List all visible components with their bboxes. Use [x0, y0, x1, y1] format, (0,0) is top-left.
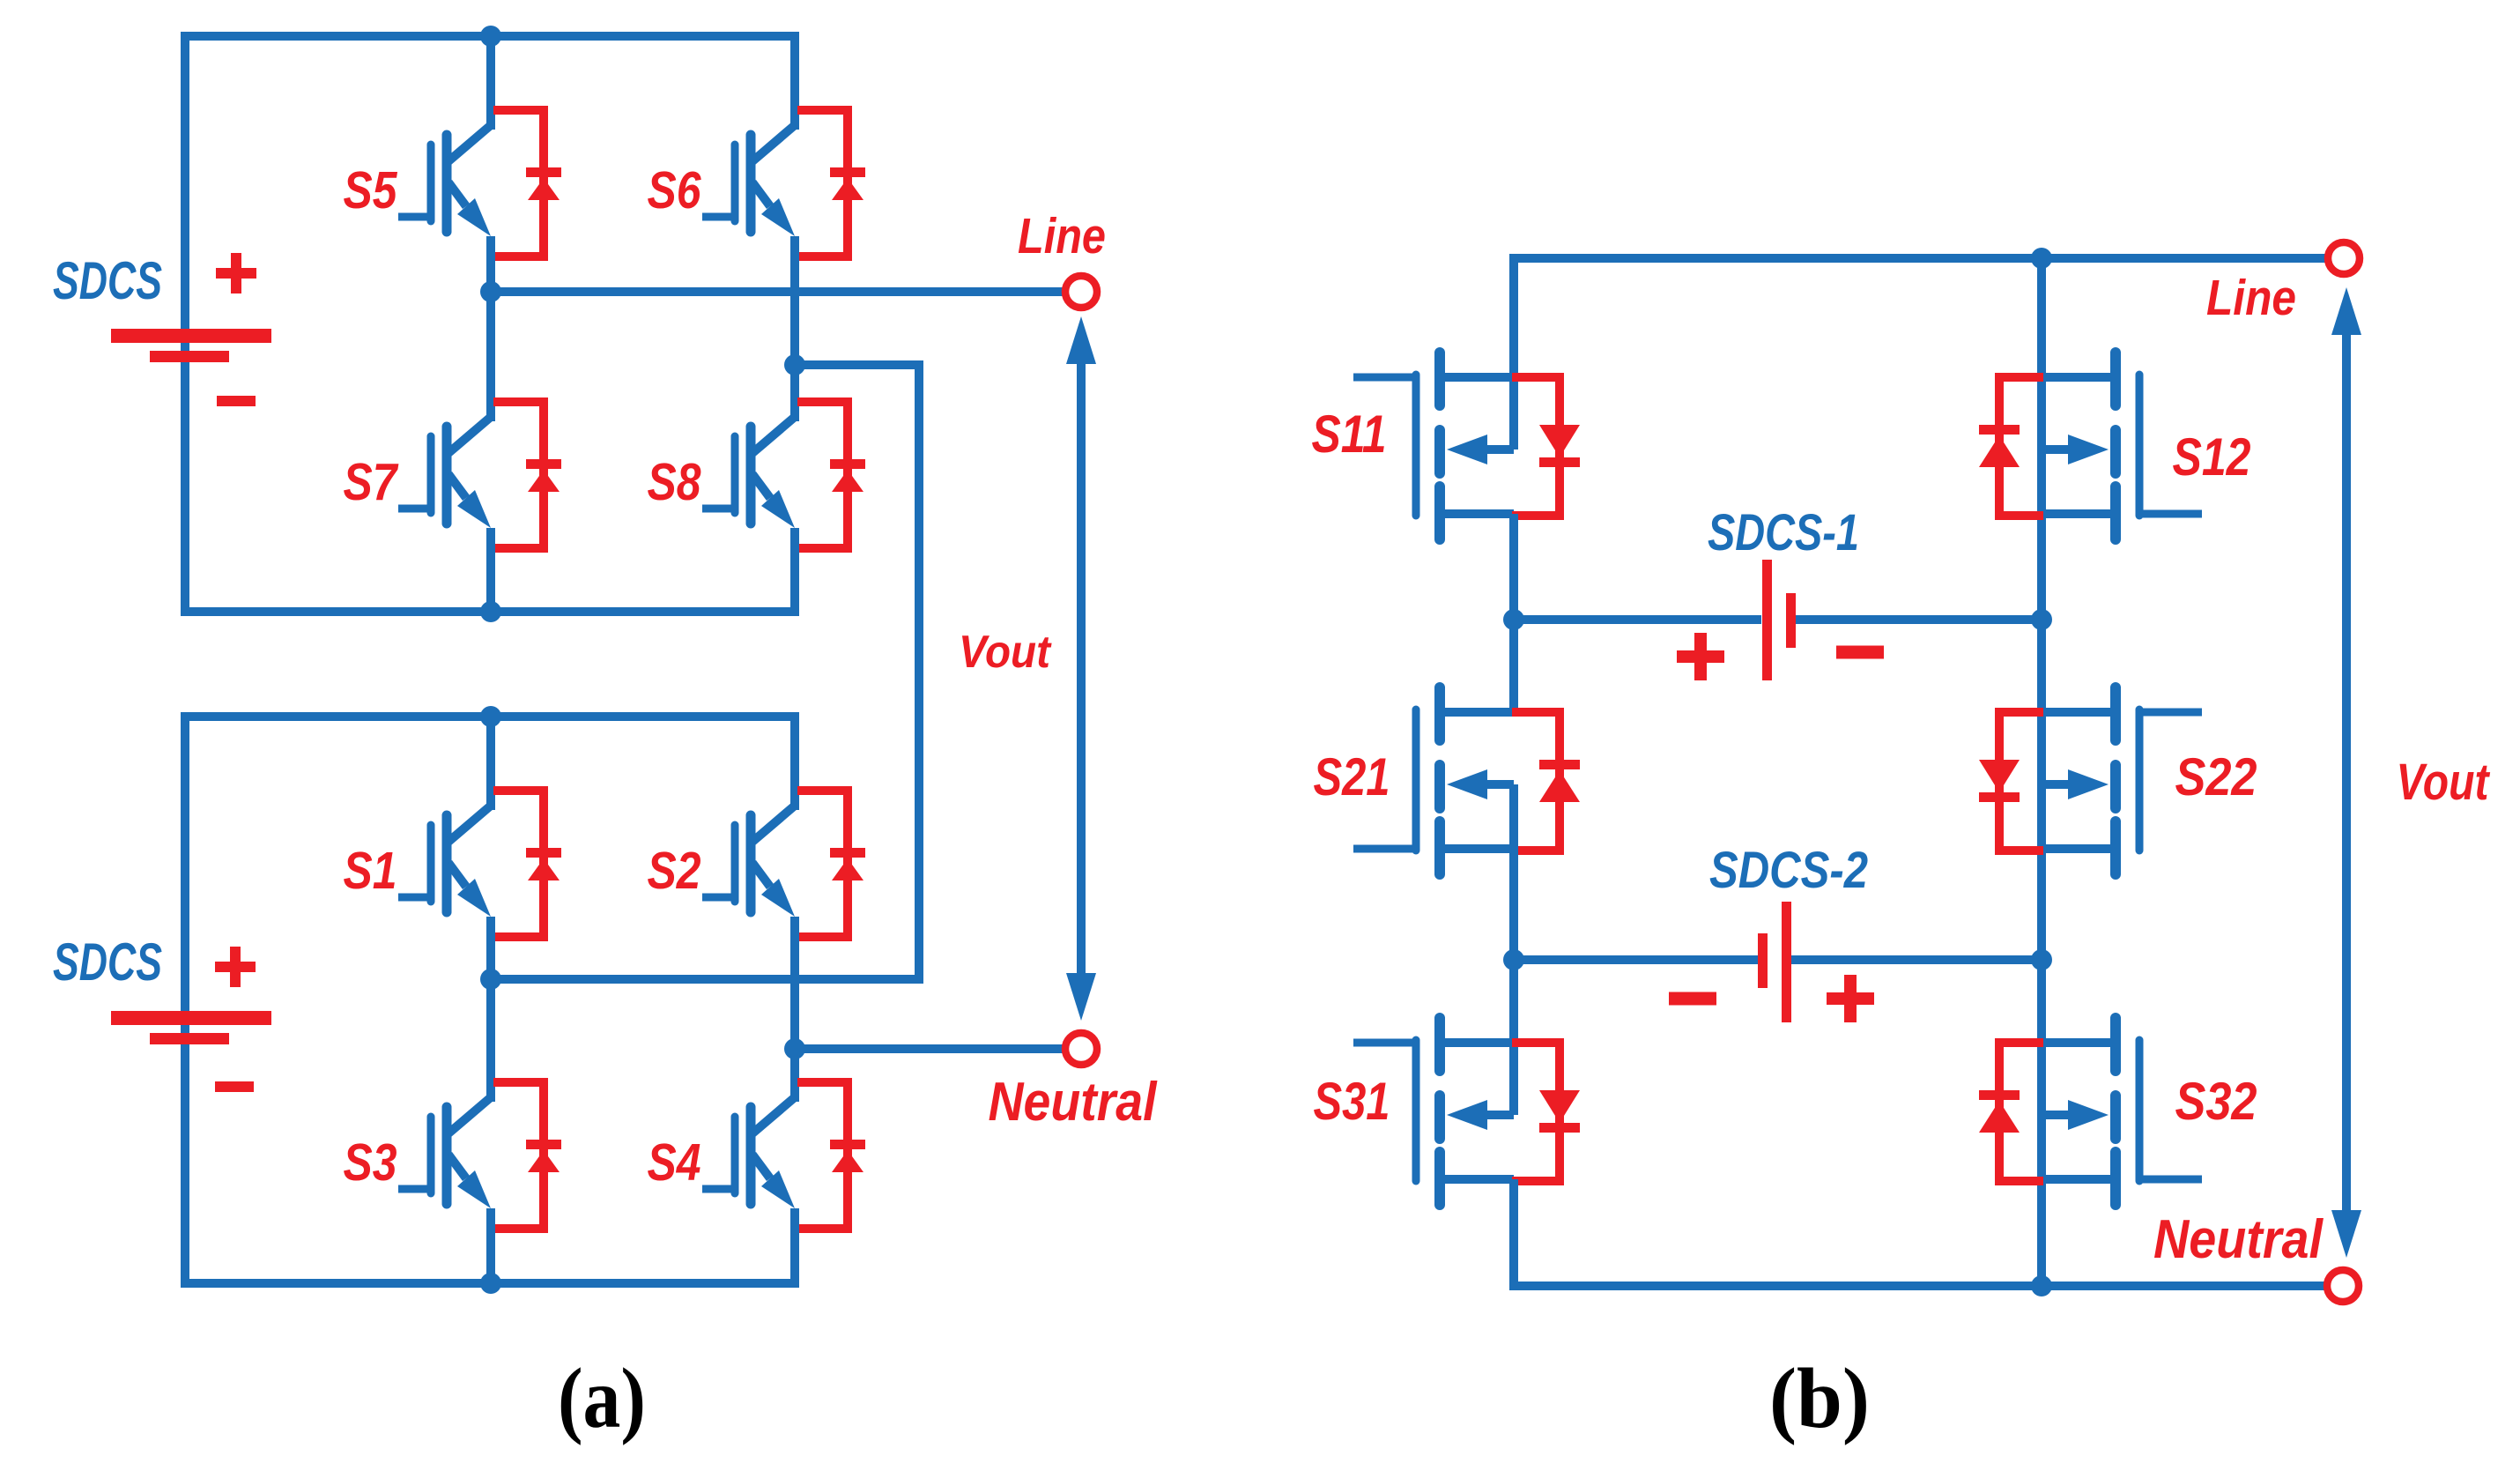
- diode D2 (antiparallel of S2): [797, 791, 865, 937]
- svg-text:S7: S7: [344, 453, 400, 511]
- node top bus junction (b): [2031, 248, 2052, 269]
- transistor S21 (MOSFET): [1353, 687, 1514, 874]
- minus sign (upper SDCS): [217, 396, 256, 406]
- label Neutral (a): [989, 1072, 1159, 1133]
- diode D7 (antiparallel of S7): [493, 402, 561, 548]
- transistor S1 (IGBT): [398, 806, 491, 917]
- label S21: [1314, 747, 1390, 806]
- label Vout (b): [2397, 754, 2491, 811]
- svg-text:S31: S31: [1314, 1072, 1390, 1131]
- wire top bus (upper bridge): [181, 32, 799, 41]
- svg-text:S12: S12: [2173, 427, 2251, 487]
- svg-text:(b): (b): [1769, 1351, 1870, 1446]
- svg-text:SDCS: SDCS: [53, 251, 162, 310]
- wire S31 drain branch: [1509, 960, 1518, 1115]
- battery SDCS-2 plates: [1758, 902, 1791, 1022]
- diode D32 (body diode of S32): [1979, 1043, 2043, 1181]
- transistor S31 (MOSFET): [1353, 1018, 1514, 1205]
- terminal Neutral (b): [2327, 1270, 2359, 1302]
- svg-text:SDCS: SDCS: [53, 932, 162, 992]
- transistor S6 (IGBT): [702, 125, 795, 236]
- arrow Vout (a): [1066, 316, 1096, 1021]
- node top-left junction (upper): [480, 26, 501, 47]
- wire S31 source to bottom bus: [1509, 1179, 1518, 1286]
- wire S3 emitter to bottom bus: [486, 1208, 495, 1283]
- battery SDCS (lower) plates: [111, 1011, 271, 1044]
- svg-text:Vout: Vout: [2397, 754, 2491, 811]
- svg-text:S11: S11: [1312, 405, 1387, 464]
- label Neutral (b): [2153, 1209, 2324, 1270]
- wire S8 collector: [790, 365, 799, 421]
- label SDCS (lower): [53, 932, 162, 992]
- label Line (a): [1018, 208, 1106, 264]
- wire SDCS-2 tall plate to right column: [1791, 955, 2042, 964]
- svg-text:S2: S2: [648, 842, 701, 900]
- wire S4 collector: [790, 1049, 799, 1102]
- wire mid node to SDCS-1 positive plate: [1514, 615, 1761, 624]
- wire S5 collector: [486, 36, 495, 130]
- diode D4 (antiparallel of S4): [797, 1082, 865, 1229]
- diode D11 (body diode of S11): [1512, 377, 1580, 516]
- node right mid node 2 (b): [2031, 949, 2052, 970]
- terminal Neutral (a): [1065, 1033, 1097, 1065]
- terminal Line (a): [1065, 276, 1097, 308]
- label S8: [648, 453, 701, 511]
- transistor S8 (IGBT): [702, 417, 795, 528]
- transistor S22 (MOSFET): [2042, 687, 2202, 874]
- node bottom junction (lower): [480, 1273, 501, 1294]
- svg-text:S8: S8: [648, 453, 701, 511]
- wire S4 emitter to bottom bus: [790, 1208, 799, 1288]
- svg-text:S1: S1: [344, 842, 397, 900]
- node bottom junction (upper): [480, 601, 501, 622]
- node bottom bus junction (b): [2031, 1275, 2052, 1296]
- wire S7 emitter to bottom bus: [486, 528, 495, 612]
- wire Line output: [491, 287, 1065, 296]
- wire bottom bus (b): [1509, 1282, 2327, 1290]
- terminal Line (b): [2328, 242, 2360, 274]
- wire cascade (upper-right midpoint to lower-left midpoint): [491, 365, 919, 979]
- transistor S32 (MOSFET): [2042, 1018, 2202, 1205]
- label Line (b): [2206, 270, 2296, 326]
- wire S8 emitter to bottom bus: [790, 528, 799, 616]
- svg-text:S6: S6: [648, 161, 702, 219]
- node upper-right midpoint: [784, 354, 805, 375]
- transistor S7 (IGBT): [398, 417, 491, 528]
- svg-text:Vout: Vout: [959, 627, 1052, 678]
- wire S3 collector: [486, 979, 495, 1102]
- wire S2 collector: [790, 712, 799, 810]
- node left mid node 2 (b): [1503, 949, 1524, 970]
- minus sign (SDCS-1): [1836, 646, 1884, 659]
- wire bottom bus (upper bridge): [181, 607, 799, 616]
- label S22: [2175, 747, 2257, 806]
- wire S1 collector: [486, 717, 495, 810]
- label S4: [648, 1133, 701, 1192]
- plus sign (upper SDCS): [216, 253, 256, 293]
- wire S7 collector: [486, 292, 495, 421]
- wire S21 source to mid node 2: [1509, 784, 1518, 960]
- wire SDCS-1 negative plate to right column: [1796, 615, 2042, 624]
- wire S6 emitter (crosses Line wire): [790, 236, 799, 365]
- label S12: [2173, 427, 2251, 487]
- transistor S5 (IGBT): [398, 125, 491, 236]
- diode D8 (antiparallel of S8): [797, 402, 865, 548]
- node upper-left midpoint: [480, 281, 501, 302]
- label S5: [344, 161, 398, 219]
- svg-text:Neutral: Neutral: [989, 1072, 1159, 1133]
- diode D3 (antiparallel of S3): [493, 1082, 561, 1229]
- label S2: [648, 842, 701, 900]
- svg-text:SDCS-2: SDCS-2: [1709, 842, 1868, 899]
- wire S2 emitter (crosses cascade wire): [790, 917, 799, 1049]
- plus sign (lower SDCS): [215, 947, 256, 987]
- wire battery branch (lower SDCS): [181, 712, 189, 1288]
- diode D21 (body diode of S21): [1512, 712, 1580, 851]
- svg-text:S5: S5: [344, 161, 398, 219]
- diode D1 (antiparallel of S1): [493, 791, 561, 937]
- wire battery branch (upper SDCS): [181, 32, 189, 616]
- plus sign (SDCS-1): [1677, 633, 1724, 680]
- diode D22 (body diode of S22): [1979, 712, 2043, 851]
- wire Neutral output: [795, 1044, 1065, 1053]
- wire top bus (b): [1509, 254, 2328, 263]
- label S6: [648, 161, 702, 219]
- node top-left junction (lower): [480, 706, 501, 727]
- battery SDCS-1 plates: [1762, 560, 1796, 680]
- svg-text:Line: Line: [1018, 208, 1106, 264]
- node right mid node 1 (b): [2031, 609, 2052, 630]
- transistor S2 (IGBT): [702, 806, 795, 917]
- label S32: [2175, 1072, 2257, 1131]
- diode D5 (antiparallel of S5): [493, 110, 561, 256]
- wire S21 drain branch: [1509, 620, 1518, 712]
- label S7: [344, 453, 400, 511]
- transistor S11 (MOSFET): [1353, 353, 1514, 539]
- label SDCS-2: [1709, 842, 1868, 899]
- plus sign (SDCS-2): [1827, 975, 1874, 1022]
- wire S1 emitter to midpoint: [486, 917, 495, 979]
- transistor S4 (IGBT): [702, 1097, 795, 1208]
- svg-text:SDCS-1: SDCS-1: [1708, 504, 1859, 561]
- battery SDCS (upper) plates: [111, 329, 271, 362]
- label S11: [1312, 405, 1387, 464]
- diode D12 (body diode of S12): [1979, 377, 2043, 516]
- node left mid node 1 (b): [1503, 609, 1524, 630]
- label S1: [344, 842, 397, 900]
- transistor S12 (MOSFET): [2042, 353, 2202, 539]
- wire S6 collector: [790, 32, 799, 130]
- label S31: [1314, 1072, 1390, 1131]
- label Vout (a): [959, 627, 1052, 678]
- diode D6 (antiparallel of S6): [797, 110, 865, 256]
- svg-text:(a): (a): [558, 1351, 646, 1446]
- transistor S3 (IGBT): [398, 1097, 491, 1208]
- caption (a): [558, 1351, 646, 1446]
- svg-text:S21: S21: [1314, 747, 1390, 806]
- node lower-left midpoint: [480, 969, 501, 990]
- node lower-right midpoint: [784, 1038, 805, 1059]
- svg-text:S4: S4: [648, 1133, 701, 1192]
- svg-text:S32: S32: [2175, 1072, 2257, 1131]
- wire S11 drain branch: [1509, 258, 1518, 449]
- svg-text:S3: S3: [344, 1133, 397, 1192]
- minus sign (SDCS-2): [1669, 992, 1716, 1006]
- label S3: [344, 1133, 397, 1192]
- caption (b): [1769, 1351, 1870, 1446]
- wire right column (b): [2037, 258, 2046, 1286]
- label SDCS (upper): [53, 251, 162, 310]
- wire bottom bus (lower bridge): [181, 1279, 799, 1288]
- wire top bus (lower bridge): [181, 712, 799, 721]
- svg-text:Neutral: Neutral: [2153, 1209, 2324, 1270]
- svg-text:Line: Line: [2206, 270, 2296, 326]
- wire S11 source to mid node: [1509, 514, 1518, 620]
- label SDCS-1: [1708, 504, 1859, 561]
- arrow Vout (b): [2331, 287, 2361, 1258]
- wire mid node 2 to SDCS-2 short plate: [1514, 955, 1758, 964]
- minus sign (lower SDCS): [215, 1081, 254, 1092]
- wire S5 emitter to midpoint: [486, 236, 495, 291]
- diode D31 (body diode of S31): [1512, 1043, 1580, 1181]
- svg-text:S22: S22: [2175, 747, 2257, 806]
